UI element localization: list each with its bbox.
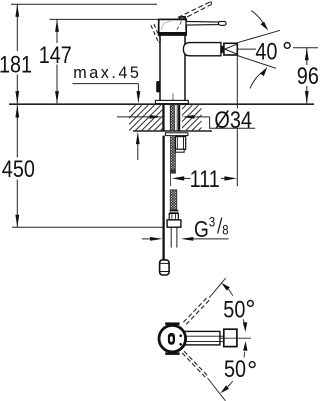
svg-text:3: 3 xyxy=(209,213,215,229)
svg-text:G: G xyxy=(194,216,209,242)
svg-text:181: 181 xyxy=(0,51,32,78)
svg-text:40: 40 xyxy=(255,38,277,65)
svg-text:147: 147 xyxy=(39,41,72,68)
svg-text:8: 8 xyxy=(222,221,228,237)
svg-text:96: 96 xyxy=(297,62,319,89)
svg-text:Ø34: Ø34 xyxy=(214,106,251,133)
svg-text:50: 50 xyxy=(223,295,245,322)
svg-text:450: 450 xyxy=(2,155,35,182)
svg-text:max.45: max.45 xyxy=(73,64,141,82)
svg-text:50: 50 xyxy=(224,355,246,382)
svg-text:111: 111 xyxy=(190,165,220,192)
